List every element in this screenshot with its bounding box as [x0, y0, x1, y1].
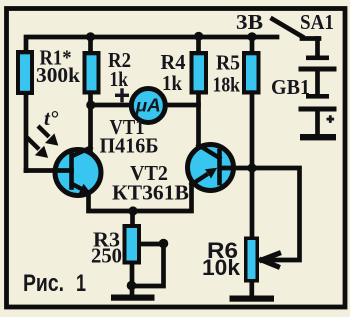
svg-text:R5: R5	[216, 51, 240, 75]
svg-text:1: 1	[76, 270, 86, 297]
svg-text:μА: μА	[135, 96, 161, 116]
svg-text:3В: 3В	[236, 10, 263, 34]
svg-text:t°: t°	[44, 106, 59, 130]
svg-text:GB1: GB1	[271, 75, 310, 99]
svg-text:Рис.: Рис.	[23, 270, 64, 297]
svg-text:18k: 18k	[213, 73, 241, 97]
svg-text:П416Б: П416Б	[100, 134, 159, 158]
svg-text:1k: 1k	[162, 71, 182, 95]
svg-text:КТ361В: КТ361В	[112, 181, 189, 205]
svg-text:300k: 300k	[36, 63, 80, 87]
svg-text:10k: 10k	[202, 255, 241, 280]
svg-text:1k: 1k	[110, 67, 129, 91]
svg-text:SA1: SA1	[300, 10, 334, 34]
svg-text:250: 250	[91, 244, 122, 268]
